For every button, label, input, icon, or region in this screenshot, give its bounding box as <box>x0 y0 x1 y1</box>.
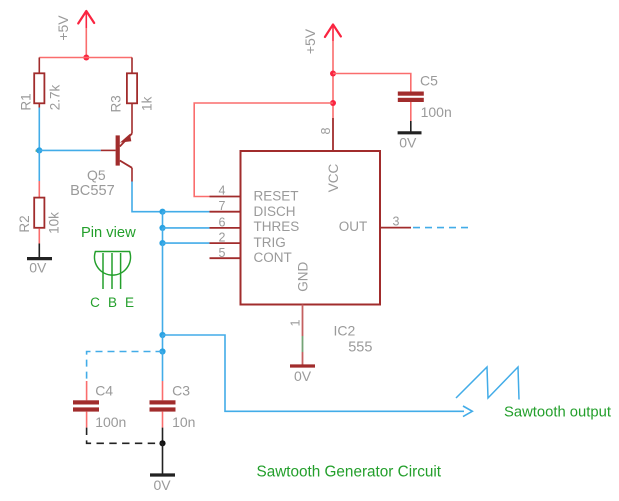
op-amp IC2 555 box <box>241 151 381 305</box>
pin 7 stub <box>210 211 241 213</box>
wire C5 bottom lead <box>410 102 412 121</box>
wire C4 bottom lead <box>86 412 88 428</box>
wire to pin 2 <box>163 242 210 244</box>
wire to C5 <box>333 74 411 92</box>
wire C5 to ground <box>410 121 412 132</box>
junction dot pin2 <box>159 240 165 246</box>
ground 0V under IC <box>290 366 315 384</box>
pin 1 stub <box>302 305 304 337</box>
svg-text:DISCH: DISCH <box>254 204 296 219</box>
wire R1 bottom lead <box>38 104 40 108</box>
svg-text:0V: 0V <box>29 260 47 276</box>
svg-text:3: 3 <box>393 214 400 228</box>
wire pin1 to ground <box>302 352 304 366</box>
junction dot pin6 <box>159 225 165 231</box>
wire base node down blue <box>38 150 40 181</box>
svg-text:BC557: BC557 <box>70 183 115 199</box>
wire C3 to ground node <box>162 428 164 444</box>
capacitor C4 <box>73 383 113 412</box>
wire output to arrow <box>163 335 465 411</box>
svg-text:OUT: OUT <box>339 219 368 234</box>
wire emitter vertical <box>131 120 133 134</box>
wire R2 to ground <box>38 244 40 259</box>
svg-text:10n: 10n <box>172 414 195 430</box>
pin 5 stub <box>210 257 241 259</box>
svg-text:C5: C5 <box>420 73 438 89</box>
wire +5V vertical left <box>85 28 87 58</box>
wire collector down blue <box>132 182 163 212</box>
svg-text:+5V: +5V <box>302 28 318 54</box>
svg-text:10k: 10k <box>47 212 62 234</box>
svg-text:+5V: +5V <box>55 15 71 41</box>
ground 0V under R2 <box>27 259 52 276</box>
wire reset loop <box>194 103 333 197</box>
wire ground node down <box>162 443 164 475</box>
wire R1 top lead <box>38 58 40 74</box>
svg-text:1: 1 <box>289 319 303 326</box>
wire collector lead <box>131 168 133 182</box>
pin 8 stub <box>332 118 334 151</box>
wire C4 top lead <box>86 381 88 400</box>
svg-text:2: 2 <box>219 231 226 245</box>
svg-text:B: B <box>108 295 117 310</box>
svg-text:7: 7 <box>219 199 226 213</box>
resistor R1 <box>19 73 45 110</box>
pin 3 stub <box>380 227 411 229</box>
wire C3 bottom lead <box>162 412 164 428</box>
power +5V symbol right <box>302 25 341 55</box>
wire R3 top lead <box>131 58 133 74</box>
junction dot output branch <box>159 332 165 338</box>
svg-text:IC2: IC2 <box>334 322 356 338</box>
svg-text:4: 4 <box>219 183 226 197</box>
pin 6 stub <box>210 227 241 229</box>
resistor R2 <box>17 198 44 233</box>
svg-text:C: C <box>90 295 100 310</box>
junction dot reset branch <box>330 100 336 106</box>
svg-text:E: E <box>125 295 134 310</box>
svg-text:555: 555 <box>348 340 372 356</box>
svg-text:C3: C3 <box>172 383 190 399</box>
svg-text:C4: C4 <box>95 383 113 399</box>
svg-text:CONT: CONT <box>254 250 292 265</box>
svg-text:Sawtooth output: Sawtooth output <box>504 404 611 420</box>
wire base lead dark <box>101 149 116 151</box>
svg-text:2.7k: 2.7k <box>48 84 63 110</box>
capacitor C5 <box>398 73 438 103</box>
wire top horizontal rail <box>39 57 132 59</box>
wire bus down to C3 node <box>162 243 164 335</box>
capacitor C3 <box>150 383 191 412</box>
svg-text:100n: 100n <box>95 414 126 430</box>
svg-text:R1: R1 <box>19 93 34 110</box>
svg-text:Pin view: Pin view <box>81 225 136 241</box>
wire bus down 6-2 <box>162 228 164 243</box>
svg-text:5: 5 <box>219 246 226 260</box>
power +5V symbol left <box>55 11 94 41</box>
wire to pin 7 <box>163 211 210 213</box>
svg-text:RESET: RESET <box>254 188 299 203</box>
svg-text:VCC: VCC <box>326 164 341 193</box>
svg-text:TRIG: TRIG <box>254 235 286 250</box>
wire to pin 6 <box>163 227 210 229</box>
wire green overlap nub <box>36 150 38 152</box>
resistor R3 <box>109 73 138 112</box>
svg-text:GND: GND <box>296 262 311 292</box>
ground 0V under C3 <box>150 475 175 493</box>
wire bus down branch <box>162 335 164 352</box>
svg-text:0V: 0V <box>294 368 312 384</box>
svg-text:R2: R2 <box>17 215 32 232</box>
wire C3 top blue <box>162 352 164 382</box>
svg-text:0V: 0V <box>153 477 171 493</box>
wire R3 bottom lead <box>131 104 133 120</box>
wire C3 top lead <box>162 381 164 400</box>
wire bus down 7-6 <box>162 212 164 228</box>
junction dot pin7 <box>159 209 165 215</box>
wire R2 bottom lead <box>38 229 40 244</box>
transistor Q5 <box>70 134 132 199</box>
wire R2 top lead <box>38 181 40 197</box>
wire +5V vertical right <box>332 41 334 118</box>
pin view symbol Q5 package <box>95 252 131 290</box>
sawtooth waveform icon <box>456 367 519 400</box>
svg-text:THRES: THRES <box>254 219 300 234</box>
wire green segment <box>302 336 304 352</box>
junction dot ground node <box>159 440 165 446</box>
svg-text:1k: 1k <box>140 96 155 111</box>
pin 4 stub <box>210 196 241 198</box>
svg-text:100n: 100n <box>421 104 452 120</box>
junction dot C5 branch <box>330 71 336 77</box>
junction dot left +5V <box>83 55 89 61</box>
svg-text:Sawtooth Generator Circuit: Sawtooth Generator Circuit <box>257 464 442 481</box>
svg-text:0V: 0V <box>399 135 417 151</box>
wire dashed blue to C4 <box>87 352 163 382</box>
wire dashed output pin3 <box>413 227 473 229</box>
arrow head output <box>463 406 472 417</box>
wire dashed black C4 to ground node <box>87 428 163 444</box>
svg-text:6: 6 <box>219 215 226 229</box>
pin 2 stub <box>210 242 241 244</box>
wire R1 to base node blue <box>38 108 40 151</box>
ground 0V under C5 <box>398 133 422 151</box>
junction dot C4 branch <box>159 348 165 354</box>
svg-text:R3: R3 <box>109 95 124 112</box>
wire base horizontal <box>39 149 101 151</box>
junction dot base node <box>36 147 42 153</box>
svg-text:8: 8 <box>319 127 333 134</box>
svg-text:Q5: Q5 <box>87 167 106 183</box>
